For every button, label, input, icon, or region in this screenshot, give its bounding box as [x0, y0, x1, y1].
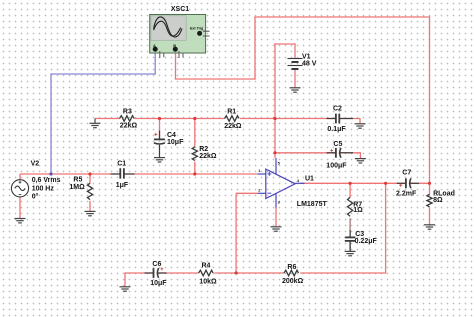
- svg-text:200kΩ: 200kΩ: [282, 278, 304, 285]
- wire: scope B probe horizontal run: [175, 78, 255, 80]
- capacitor C5 polarity plus: [330, 149, 333, 152]
- svg-text:10μF: 10μF: [150, 280, 167, 287]
- op-amp U1 minus mark: [267, 192, 271, 194]
- svg-text:10μF: 10μF: [167, 139, 184, 146]
- wire: inverting input feedback riser: [235, 193, 237, 273]
- resistor R6: [284, 270, 298, 276]
- svg-text:100 Hz: 100 Hz: [32, 186, 55, 193]
- junction: feedback riser on output wire: [384, 182, 387, 185]
- svg-text:0.1μF: 0.1μF: [327, 126, 346, 133]
- resistor R1: [225, 116, 240, 122]
- wire: scope B probe vertical from B terminal: [175, 50, 177, 79]
- ground left of C6: [120, 287, 131, 291]
- svg-text:U1: U1: [305, 176, 314, 183]
- svg-text:2.2mF: 2.2mF: [396, 190, 417, 197]
- wire: R2 bottom lead: [194, 162, 196, 175]
- capacitor C2: [327, 114, 353, 124]
- svg-text:A: A: [153, 43, 156, 48]
- svg-text:4: 4: [297, 178, 300, 183]
- junction: R5 on input wire: [88, 172, 91, 175]
- wire: output wire op-amp to C7: [301, 182, 406, 184]
- op-amp U1 V- pin: [275, 194, 277, 208]
- ground below op-amp V- pin: [271, 227, 282, 231]
- svg-text:C5: C5: [333, 141, 342, 148]
- junction: rail and C5: [273, 151, 276, 154]
- svg-text:48 V: 48 V: [302, 61, 317, 68]
- wire: V1 positive lead vertical: [294, 43, 296, 58]
- svg-text:8Ω: 8Ω: [433, 197, 443, 204]
- wire: RLoad top lead: [429, 183, 431, 194]
- capacitor C7 (polarized): [397, 178, 419, 188]
- ground at R3 left: [90, 119, 101, 128]
- svg-text:1Ω: 1Ω: [353, 207, 363, 214]
- junction: rail and R1 and C2: [273, 117, 276, 120]
- oscilloscope terminal A: [153, 47, 158, 52]
- wire: input signal wire C1 to op-amp +: [124, 173, 258, 175]
- svg-text:2: 2: [258, 188, 261, 193]
- capacitor C5 (polarized): [327, 148, 353, 158]
- svg-text:22kΩ: 22kΩ: [224, 123, 242, 130]
- resistor R2 (vertical): [192, 147, 197, 161]
- wire: feedback riser R6 to output: [385, 183, 387, 273]
- wire: V1 positive lead horizontal: [274, 43, 295, 45]
- svg-text:C6: C6: [152, 261, 161, 268]
- capacitor C7 polarity plus: [399, 184, 402, 187]
- wire: scope B probe drop to output node: [429, 16, 431, 184]
- wire: R5 top lead: [89, 174, 91, 183]
- svg-text:5: 5: [278, 161, 281, 166]
- svg-text:C7: C7: [402, 170, 411, 177]
- junction: R2 on input wire: [193, 172, 196, 175]
- svg-text:0°: 0°: [32, 193, 39, 201]
- ground below R5: [85, 211, 96, 215]
- DC source V1 (battery): [288, 59, 303, 70]
- wire: feedback row R4 to R6: [214, 272, 284, 274]
- oscilloscope channel B stubs: [179, 51, 183, 58]
- AC source V2: [11, 180, 28, 197]
- capacitor C6 polarity plus: [160, 267, 163, 270]
- wire: feedback row R6 to riser: [300, 272, 386, 274]
- wire: V2 bottom lead to ground: [19, 197, 21, 219]
- ground below V2: [15, 219, 26, 223]
- svg-text:3: 3: [278, 200, 281, 205]
- ground below RLoad: [424, 225, 435, 229]
- wire: V2 top lead: [19, 174, 21, 180]
- svg-text:1: 1: [258, 168, 261, 173]
- resistor R7 (vertical): [348, 197, 353, 216]
- svg-text:R6: R6: [287, 264, 296, 271]
- oscilloscope ext trig stubs: [203, 31, 210, 36]
- svg-text:22kΩ: 22kΩ: [199, 153, 217, 160]
- wire: R5 bottom lead to ground: [89, 201, 91, 212]
- wire: scope A probe horizontal run: [51, 73, 156, 75]
- wire: op-amp V- pin to ground: [275, 207, 277, 227]
- svg-text:R5: R5: [73, 177, 82, 184]
- svg-text:R3: R3: [123, 108, 132, 115]
- op-amp U1 triangle: [258, 158, 305, 208]
- svg-text:100μF: 100μF: [326, 163, 347, 170]
- wire: R7 top lead: [349, 183, 351, 197]
- junction: R2 on bias wire: [193, 117, 196, 120]
- wire: scope A probe drop to input node: [50, 73, 52, 174]
- svg-text:10kΩ: 10kΩ: [199, 278, 217, 285]
- oscilloscope channel A stubs: [160, 51, 164, 58]
- svg-text:B: B: [173, 43, 176, 48]
- wire: RLoad bottom lead to ground: [429, 208, 431, 225]
- junction: C4 on bias wire: [158, 117, 161, 120]
- wire: scope B probe top run to output node: [254, 16, 429, 18]
- svg-text:R2: R2: [199, 146, 208, 153]
- wire: R2 top lead: [194, 119, 196, 147]
- resistor R4: [199, 270, 214, 276]
- wire: C2 wire from rail: [275, 118, 336, 120]
- wire: C4 top lead: [159, 119, 161, 139]
- op-amp U1 V+ pin: [275, 158, 277, 174]
- capacitor C1: [111, 168, 135, 178]
- svg-text:22kΩ: 22kΩ: [120, 123, 138, 130]
- svg-text:XSC1: XSC1: [171, 6, 189, 13]
- oscilloscope ext trig terminal: [197, 31, 202, 36]
- resistor RLoad (vertical): [427, 194, 432, 207]
- ground below C4: [154, 158, 165, 162]
- ground below V1: [290, 88, 301, 92]
- svg-text:C2: C2: [333, 106, 342, 113]
- wire: +48V rail vertical: [274, 43, 276, 158]
- resistor R3: [120, 116, 135, 122]
- capacitor C3 (vertical): [345, 230, 356, 251]
- wire: scope A probe vertical from A terminal: [154, 50, 156, 74]
- wire: bias wire R1 to rail: [240, 118, 275, 120]
- svg-text:1μF: 1μF: [116, 182, 129, 189]
- svg-text:0.22μF: 0.22μF: [355, 238, 378, 245]
- svg-text:V2: V2: [31, 161, 40, 168]
- wire: input signal wire V2 to C1: [20, 173, 120, 175]
- wire: C3 bottom lead to ground: [349, 241, 351, 251]
- svg-text:LM1875T: LM1875T: [297, 201, 328, 208]
- svg-text:R1: R1: [227, 108, 236, 115]
- resistor R5 (vertical): [87, 183, 92, 199]
- svg-text:0,6 Vrms: 0,6 Vrms: [32, 177, 61, 184]
- op-amp U1 inverting input pin: [258, 192, 266, 194]
- junction: feedback row at R4/R6: [235, 271, 238, 274]
- wire: C5 wire from rail: [275, 152, 336, 154]
- wire: scope B probe riser: [254, 17, 256, 80]
- capacitor C4 polarity plus: [154, 133, 157, 136]
- svg-text:C1: C1: [117, 161, 126, 168]
- svg-text:Ext Trig: Ext Trig: [190, 27, 203, 31]
- junction: R7 on output wire: [349, 182, 352, 185]
- capacitor C6 (polarized): [145, 268, 167, 278]
- wire: V1 negative lead to ground: [294, 69, 296, 88]
- ground below C3: [345, 251, 356, 255]
- op-amp U1 output pin: [295, 182, 304, 184]
- junction: load node: [428, 182, 431, 185]
- wire: output wire C7 to load node: [409, 182, 430, 184]
- op-amp U1 plus mark: [267, 172, 271, 176]
- wire: feedback row C6 to R4: [157, 272, 199, 274]
- ground right of C2: [355, 124, 366, 128]
- wire: R7 to C3 link: [349, 218, 351, 237]
- svg-text:R4: R4: [202, 263, 211, 270]
- wire: inverting input horizontal: [236, 192, 258, 194]
- junction: A probe on input wire: [49, 172, 52, 175]
- wire: bias wire R3 to R1: [135, 118, 225, 120]
- ground right of C5: [355, 159, 366, 163]
- wire: C6 ground stem: [124, 272, 126, 287]
- oscilloscope terminal B: [173, 47, 178, 52]
- capacitor C4 (polarized, vertical): [154, 131, 165, 158]
- oscilloscope XSC1: [150, 15, 210, 59]
- op-amp U1 non-inverting input pin: [258, 173, 266, 175]
- wire: C2 to ground stem: [339, 119, 360, 124]
- wire: bias wire ground to R3: [95, 118, 120, 120]
- wire: C5 to ground stem: [339, 153, 361, 159]
- wire: feedback row ground to C6: [125, 272, 153, 274]
- svg-text:1MΩ: 1MΩ: [69, 184, 85, 191]
